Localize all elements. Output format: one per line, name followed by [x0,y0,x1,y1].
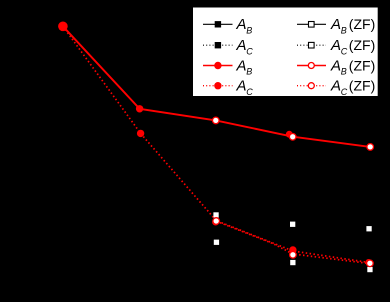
svg-text:C: C [341,46,348,56]
node: filled circle point 5 A_C [365,259,372,266]
svg-text:A: A [330,37,341,54]
node: open circle point 4 A_C(ZF) [290,252,297,259]
node: open square marker upper series x3 [213,212,218,217]
node: open circle point 4 A_B(ZF) [289,134,296,141]
node: open circle point 5 A_B(ZF) [367,144,374,151]
legend box [193,8,378,97]
svg-text:A: A [236,57,247,74]
wire: series A_C dotted red line [63,26,370,262]
legend row 1 col 2: open square marker [309,22,315,28]
legend row 2 col 2: dotted black line [297,44,326,46]
node: open circle point 3 A_C(ZF) [213,218,220,225]
svg-text:C: C [341,87,348,97]
svg-text:(ZF): (ZF) [349,78,375,94]
node: filled circle point 1 (overlapping A_B/A_C) [58,22,68,32]
legend row 1 col 2: solid black line [297,23,326,25]
legend row 2 col 1: filled square marker [215,42,221,48]
svg-text:C: C [246,87,253,97]
legend row 1 col 1: filled square marker [215,21,221,27]
svg-text:B: B [246,26,252,36]
svg-text:A: A [236,37,247,54]
node: filled circle point 2 A_C [137,130,144,137]
svg-text:(ZF): (ZF) [349,37,375,53]
svg-text:A: A [330,78,341,95]
svg-text:(ZF): (ZF) [349,16,375,32]
legend row 3 col 1: filled circle marker [214,62,221,69]
node: open square marker lower series x4 [290,260,295,265]
svg-text:B: B [341,67,347,77]
node: open square marker lower series x3 [214,240,219,245]
svg-text:A: A [330,16,341,33]
node: open square marker upper series x5 [366,226,371,231]
svg-text:(ZF): (ZF) [349,57,375,73]
node: open circle point 3 A_B(ZF) [213,117,220,124]
svg-text:A: A [330,57,341,74]
node: filled circle point 3 A_C [212,219,219,226]
legend row 2 col 2: open square marker [309,42,315,48]
svg-text:C: C [246,46,253,56]
legend row 4 col 2: open circle marker [308,83,314,89]
legend row 3 col 1: solid red line [203,65,233,67]
node: filled circle point 4 A_B [286,131,293,138]
node: open square marker upper series x4 [290,222,295,227]
legend row 4 col 2: dotted red line [297,85,326,87]
wire: series A_C (ZF) dotted red line [216,221,370,263]
node: filled circle point 2 A_B [136,105,143,112]
svg-text:B: B [341,26,347,36]
svg-text:A: A [236,16,247,33]
svg-text:B: B [246,67,252,77]
legend row 4 col 1: filled circle marker [214,82,221,89]
legend row 2 col 1: dotted black line [203,44,233,46]
legend row 1 col 1: solid black line [203,23,233,25]
legend row 3 col 2: solid red line [297,65,326,67]
legend row 3 col 2: open circle marker [308,63,314,69]
node: open square marker lower series x5 [367,267,372,272]
node: open circle point 5 A_C(ZF) [367,260,374,267]
svg-text:A: A [236,78,247,95]
wire: series A_B solid red line [63,26,370,147]
node: filled circle point 4 A_C [289,246,296,253]
legend row 4 col 1: dotted red line [203,85,233,87]
